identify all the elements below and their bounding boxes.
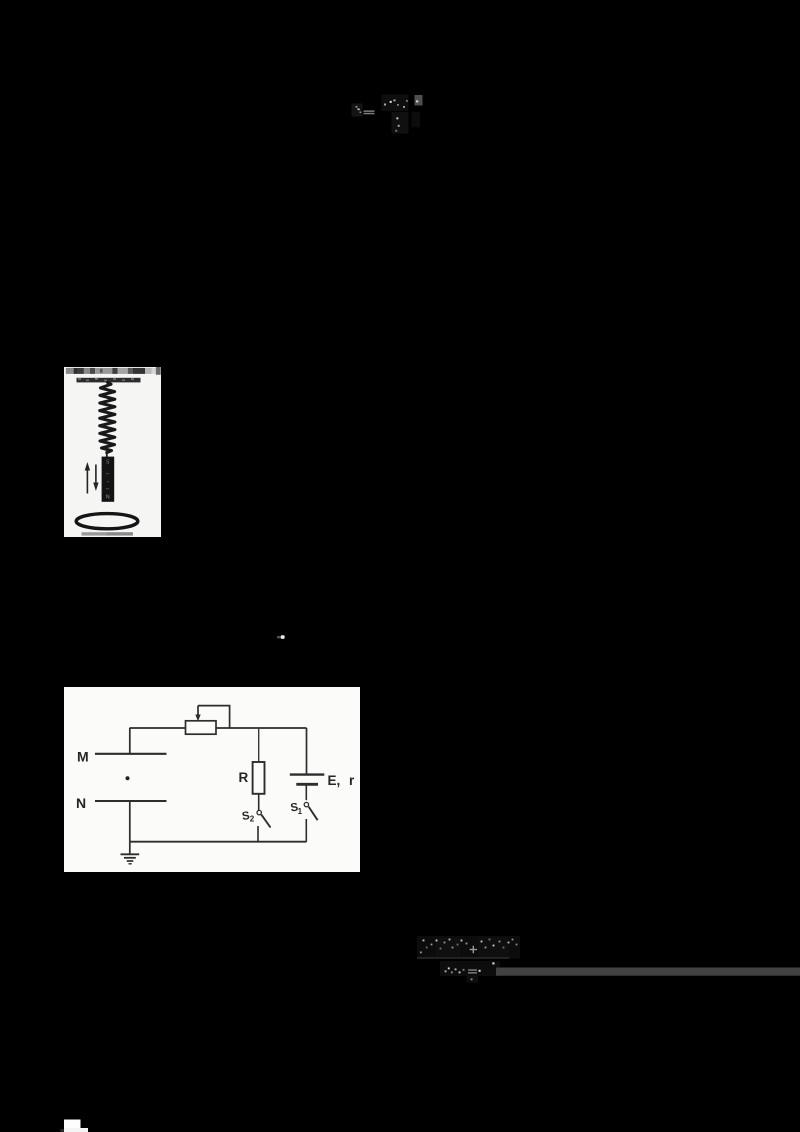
formula tile denominator <box>392 112 421 134</box>
wire below switch S2 <box>257 826 259 842</box>
formula equals sign <box>364 110 375 114</box>
ground bar 2 <box>124 857 136 859</box>
bottom formula row 2 tiles <box>440 961 500 983</box>
bottom formula row 2 specks <box>445 967 465 973</box>
wire below battery <box>305 784 307 800</box>
down arrow <box>93 465 98 492</box>
ground bar 3 <box>127 860 134 862</box>
ground stem <box>129 842 131 854</box>
svg-text:N: N <box>105 495 109 501</box>
metal ring <box>76 514 138 529</box>
svg-text:N: N <box>76 795 86 811</box>
svg-text:E,: E, <box>328 773 341 788</box>
svg-text:R: R <box>239 770 249 785</box>
wire left vertical upper <box>129 728 131 754</box>
capacitor plate M <box>95 753 167 755</box>
cropped text row at card top <box>65 367 160 375</box>
bottom formula fraction bar <box>417 957 510 959</box>
wire bottom horizontal <box>130 841 307 843</box>
magnet bar <box>101 457 114 502</box>
up arrow <box>84 462 89 494</box>
wire below resistor <box>258 794 260 810</box>
capacitor plate N <box>95 800 167 802</box>
svg-text:M: M <box>77 749 89 765</box>
small dash-dot mark mid page <box>277 635 285 639</box>
switch S1 hinge circle <box>304 802 308 806</box>
formula gray block right <box>415 95 423 106</box>
wire left vertical lower <box>129 801 131 842</box>
wire below switch S1 <box>305 819 307 842</box>
circuit diagram card <box>64 687 360 872</box>
svg-text:2: 2 <box>250 815 255 824</box>
svg-text:r: r <box>349 773 355 788</box>
formula tile lambda <box>352 104 363 117</box>
svg-text:1: 1 <box>298 807 303 816</box>
wire right vertical <box>306 728 308 774</box>
rheostat wiper arrow <box>195 706 200 722</box>
bottom formula plus sign <box>470 946 477 953</box>
bottom formula superscript dot <box>492 962 494 964</box>
formula tile sqrt numerator <box>382 95 409 112</box>
battery plate long <box>290 773 325 775</box>
bottom formula row 1 specks right <box>481 939 518 949</box>
bottom formula row 2 tail speck <box>471 978 473 980</box>
resistor R body <box>253 762 265 794</box>
spring-magnet connector <box>105 452 107 458</box>
bottom-left white blob <box>61 1120 89 1132</box>
card background <box>64 687 360 872</box>
spring coil <box>99 382 114 452</box>
card background <box>64 367 161 537</box>
switch S2 blade <box>261 815 270 828</box>
rheostat body <box>186 721 217 734</box>
switch S1 blade <box>309 807 318 821</box>
switch S2 hinge circle <box>257 810 261 814</box>
gray horizontal bar to right edge <box>496 968 800 976</box>
ground bar 4 <box>129 863 132 865</box>
rheostat loop wire <box>198 706 230 728</box>
bottom formula row 1 specks <box>420 939 467 954</box>
wire top horizontal <box>130 727 307 729</box>
wire middle vertical <box>258 728 260 762</box>
ceiling hatch bar <box>76 378 140 383</box>
node dot between plates <box>126 776 130 780</box>
spring diagram card <box>64 367 161 537</box>
battery plate short <box>296 783 318 786</box>
bottom formula row 1 tiles <box>417 936 520 959</box>
bottom gray strip <box>81 532 133 535</box>
ground bar 1 <box>121 853 140 855</box>
bottom formula equals sign 2 <box>468 969 481 973</box>
